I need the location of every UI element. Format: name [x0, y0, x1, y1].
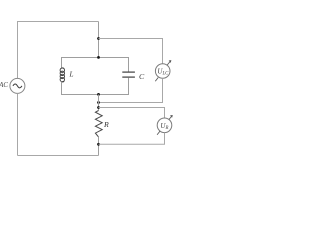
node junction LC top [97, 56, 100, 59]
wire branch from U_LC bottom [99, 78, 163, 102]
wire middle vertical between LC and R [98, 95, 100, 111]
node junction LC bottom [97, 93, 100, 96]
wire branch from U_R bottom [99, 133, 165, 145]
wire LC block bottom side [62, 94, 129, 96]
wire left vertical lower [17, 93, 19, 155]
wire middle vertical bottom [98, 137, 100, 156]
wire inductor top lead [61, 57, 63, 68]
inductor L [60, 68, 64, 82]
svg-text:AC: AC [0, 82, 8, 89]
voltmeter U_R circle [157, 118, 172, 133]
wire capacitor bottom lead [128, 78, 130, 95]
svg-text:L: L [69, 71, 74, 79]
node junction U_LC return [97, 101, 100, 104]
node junction U_R tap [97, 106, 100, 109]
wire LC block top side [62, 57, 129, 59]
wire capacitor top lead [128, 57, 130, 72]
wire left vertical upper [17, 22, 19, 79]
wire top horizontal [18, 21, 99, 24]
node junction top tap [97, 37, 100, 40]
svg-text:C: C [139, 72, 145, 81]
node junction U_R return [97, 143, 100, 146]
voltmeter U_LC circle [155, 64, 170, 79]
capacitor C [122, 72, 135, 77]
resistor R [95, 111, 102, 137]
wire branch to U_LC top [99, 39, 163, 64]
wire branch to U_R top [99, 108, 165, 119]
svg-text:R: R [103, 120, 109, 129]
wire bottom horizontal [18, 155, 99, 157]
AC source V1 [10, 78, 25, 93]
voltmeter U_R arrow [157, 116, 172, 135]
wire middle vertical upper [98, 22, 100, 58]
wire inductor bottom lead [61, 82, 63, 96]
voltmeter U_LC arrow [155, 61, 171, 82]
